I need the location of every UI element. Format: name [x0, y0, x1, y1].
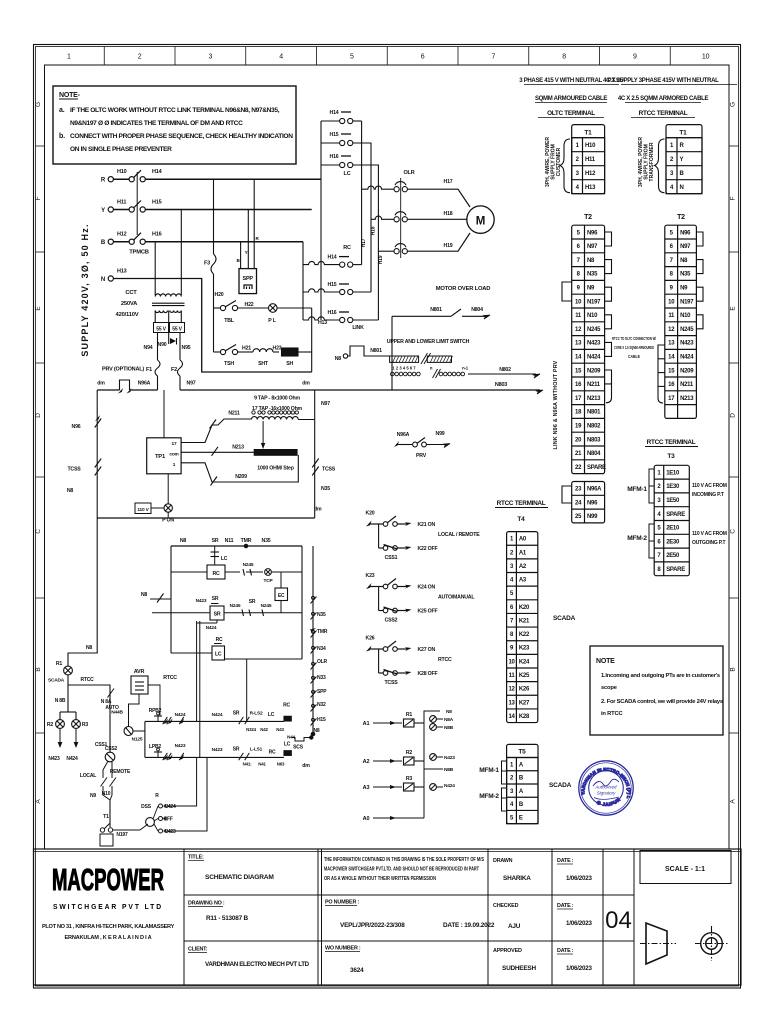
svg-text:2. For SCADA control, we will: 2. For SCADA control, we will provide 24… — [601, 699, 723, 705]
svg-text:N8: N8 — [335, 356, 342, 362]
terminal table T1 OLTC — [572, 125, 605, 194]
row N423 — [145, 756, 284, 758]
svg-text:N423: N423 — [175, 743, 186, 749]
svg-text:SR: SR — [214, 612, 221, 618]
svg-text:RTCC TERMINAL: RTCC TERMINAL — [639, 110, 688, 117]
drawing area frame — [45, 65, 730, 849]
svg-text:N423: N423 — [196, 598, 207, 604]
svg-text:R2: R2 — [406, 750, 413, 756]
svg-text:2: 2 — [138, 54, 142, 61]
svg-text:H19: H19 — [378, 255, 384, 264]
rung 2 SR — [152, 612, 210, 614]
svg-text:SUDHEESH: SUDHEESH — [502, 965, 536, 972]
svg-text:H21: H21 — [242, 346, 251, 352]
svg-text:N8: N8 — [67, 488, 74, 494]
contactor right bus — [361, 121, 363, 265]
svg-text:OUTGOING P.T: OUTGOING P.T — [692, 540, 725, 546]
svg-text:F: F — [730, 196, 737, 200]
svg-text:SHT: SHT — [258, 361, 269, 367]
wires RC out — [353, 264, 362, 266]
svg-text:TMR: TMR — [241, 538, 252, 544]
svg-text:n-1: n-1 — [462, 366, 469, 371]
svg-text:N10: N10 — [680, 313, 691, 319]
svg-text:13: 13 — [668, 341, 675, 347]
svg-text:H13: H13 — [117, 269, 127, 275]
coil SHT — [253, 349, 273, 352]
svg-text:RC: RC — [343, 245, 351, 251]
contactor RC bus2 — [302, 242, 304, 320]
wire neutral — [113, 279, 311, 373]
svg-text:MACPOWER: MACPOWER — [52, 862, 164, 897]
svg-text:N424: N424 — [206, 625, 217, 631]
motor wires — [407, 189, 470, 207]
svg-text:T5: T5 — [518, 749, 526, 756]
selector CSS1 — [108, 689, 115, 698]
svg-text:T1: T1 — [584, 130, 592, 137]
svg-text:1/06/2023: 1/06/2023 — [566, 920, 592, 927]
svg-text:H14: H14 — [328, 255, 337, 261]
svg-text:LOCAL: LOCAL — [80, 773, 96, 779]
svg-text:T4: T4 — [517, 516, 525, 523]
svg-text:12: 12 — [575, 327, 582, 333]
title block — [34, 849, 742, 985]
svg-text:N211: N211 — [587, 382, 601, 388]
svg-text:N423: N423 — [444, 755, 455, 761]
wires to SPP — [240, 242, 242, 269]
svg-text:17: 17 — [668, 396, 675, 402]
limit switch bars — [390, 356, 419, 362]
lamp R1 — [64, 666, 73, 675]
svg-text:a.: a. — [59, 107, 65, 114]
svg-text:in RTCC: in RTCC — [601, 711, 623, 717]
svg-text:TCSS: TCSS — [384, 680, 398, 686]
TPMCB pole Y — [129, 207, 134, 212]
svg-text:CCT: CCT — [125, 290, 137, 296]
svg-text:N197: N197 — [680, 299, 694, 305]
lamp TCP — [265, 569, 272, 576]
note box scada — [590, 646, 723, 735]
PRV link — [120, 380, 130, 390]
svg-text:N197: N197 — [587, 299, 601, 305]
svg-text:PRV: PRV — [416, 453, 427, 459]
drops to rows — [196, 621, 198, 721]
svg-text:250VA: 250VA — [121, 301, 138, 307]
svg-text:55 V: 55 V — [172, 327, 182, 333]
svg-text:N35: N35 — [587, 272, 598, 278]
svg-text:17: 17 — [172, 441, 177, 447]
svg-text:7: 7 — [492, 54, 496, 61]
svg-text:N43: N43 — [276, 727, 284, 732]
svg-text:17: 17 — [575, 396, 582, 402]
svg-text:N97: N97 — [187, 381, 196, 387]
coil RC — [207, 565, 225, 579]
terminal table T3 — [654, 465, 689, 575]
svg-text:3624: 3624 — [350, 967, 364, 974]
svg-text:15: 15 — [668, 368, 675, 374]
svg-text:TITLE:: TITLE: — [188, 855, 204, 861]
svg-text:110 V: 110 V — [137, 507, 149, 513]
terminal table T1 RTCC — [666, 125, 702, 194]
svg-text:K21 ON: K21 ON — [418, 522, 436, 528]
svg-text:N424: N424 — [680, 355, 694, 361]
svg-text:A3: A3 — [519, 578, 527, 584]
resistor block 1000ohm — [254, 450, 297, 456]
svg-text:R2: R2 — [47, 722, 54, 728]
left ruler strip — [36, 145, 45, 147]
svg-text:LC: LC — [344, 171, 351, 177]
svg-text:H12: H12 — [585, 171, 596, 177]
TCSS right contact — [312, 459, 319, 468]
svg-text:SWITCHGEAR PVT LTD: SWITCHGEAR PVT LTD — [53, 904, 163, 911]
tap wiper — [262, 421, 264, 444]
svg-text:TMR: TMR — [317, 629, 328, 635]
svg-text:5: 5 — [350, 54, 354, 61]
fuse F2 — [179, 333, 181, 361]
svg-text:H10: H10 — [117, 169, 127, 175]
svg-text:B: B — [35, 667, 42, 671]
svg-text:55 V: 55 V — [156, 327, 166, 333]
svg-text:SCALE - 1:1: SCALE - 1:1 — [665, 866, 705, 873]
svg-text:N42: N42 — [260, 727, 268, 732]
svg-text:N423: N423 — [48, 756, 60, 762]
svg-text:20: 20 — [575, 437, 582, 443]
svg-text:NOTE-: NOTE- — [59, 92, 81, 99]
svg-text:H16: H16 — [152, 232, 162, 238]
svg-text:DATE :: DATE : — [557, 858, 574, 864]
svg-text:15: 15 — [575, 368, 582, 374]
svg-text:N95: N95 — [182, 345, 191, 351]
svg-text:N8: N8 — [86, 645, 93, 651]
wires TP1 outputs — [181, 419, 251, 443]
svg-text:11: 11 — [668, 313, 675, 319]
svg-text:10: 10 — [575, 299, 582, 305]
left drop to R1 — [68, 518, 97, 666]
svg-text:1: 1 — [67, 54, 71, 61]
svg-text:TCSS: TCSS — [322, 467, 336, 473]
fuse F3 — [213, 179, 215, 254]
svg-text:LINK N96 & N96A WITHOUT PRV: LINK N96 & N96A WITHOUT PRV — [553, 360, 559, 449]
svg-text:TSH: TSH — [224, 361, 234, 367]
svg-text:A3: A3 — [363, 785, 370, 791]
svg-text:SR: SR — [212, 538, 219, 544]
svg-text:OR AS A WHOLE WITHOUT THEIR W: OR AS A WHOLE WITHOUT THEIR WRITTEN PERM… — [324, 876, 436, 882]
svg-text:LOCAL / REMOTE: LOCAL / REMOTE — [438, 532, 480, 538]
svg-text:N8: N8 — [446, 709, 452, 715]
svg-text:DATE : 19.09.2022: DATE : 19.09.2022 — [443, 922, 495, 929]
svg-text:CHECKED: CHECKED — [493, 903, 519, 909]
svg-text:N245: N245 — [587, 327, 601, 333]
svg-text:4C X 2.5 SQMM ARMORED CABLE: 4C X 2.5 SQMM ARMORED CABLE — [618, 96, 709, 102]
svg-text:N424: N424 — [587, 355, 601, 361]
svg-text:P.T.SUPPLY 3PHASE 415V WITH NE: P.T.SUPPLY 3PHASE 415V WITH NEUTRAL — [607, 78, 719, 84]
svg-text:RTCC: RTCC — [80, 677, 94, 683]
svg-text:dm: dm — [302, 763, 310, 769]
svg-text:N99: N99 — [436, 431, 445, 437]
svg-text:D: D — [730, 413, 737, 418]
svg-text:E: E — [519, 815, 523, 821]
wire H22 — [238, 307, 269, 309]
svg-text:RTCC TERMINAL: RTCC TERMINAL — [647, 439, 696, 446]
svg-text:RTCC: RTCC — [163, 675, 177, 681]
svg-text:NOTE: NOTE — [596, 658, 615, 665]
svg-text:13: 13 — [508, 700, 515, 706]
OLR pole H17 — [394, 187, 399, 192]
svg-text:SCADA: SCADA — [553, 615, 576, 622]
svg-text:SPARE: SPARE — [666, 567, 685, 573]
svg-text:110 V AC FROM: 110 V AC FROM — [692, 531, 727, 537]
svg-text:13: 13 — [575, 341, 582, 347]
svg-text:N424: N424 — [66, 756, 78, 762]
svg-text:OLR: OLR — [403, 170, 414, 176]
svg-text:N34: N34 — [317, 646, 326, 652]
svg-text:N97: N97 — [680, 244, 691, 250]
svg-text:N424: N424 — [175, 712, 186, 718]
svg-text:ERNAKULAM , K E R A L A I N: ERNAKULAM , K E R A L A I N D I A — [64, 935, 151, 941]
svg-text:RTCC: RTCC — [438, 657, 452, 663]
projection cone — [646, 923, 667, 964]
svg-text:INCOMING P.T: INCOMING P.T — [692, 492, 724, 498]
svg-text:MFM-2: MFM-2 — [479, 793, 499, 800]
svg-text:R3: R3 — [82, 722, 89, 728]
svg-text:16: 16 — [668, 382, 675, 388]
svg-text:A1: A1 — [363, 721, 370, 727]
svg-text:OFF: OFF — [163, 817, 173, 823]
svg-text:H19: H19 — [444, 243, 453, 249]
svg-text:K23: K23 — [519, 646, 530, 652]
svg-text:K22 OFF: K22 OFF — [418, 546, 438, 552]
svg-text:K25: K25 — [519, 673, 530, 679]
note box — [53, 86, 296, 164]
svg-text:N211: N211 — [228, 411, 240, 417]
svg-text:N99: N99 — [587, 514, 598, 520]
contactor left bus — [320, 121, 322, 320]
svg-text:REMOTE: REMOTE — [110, 769, 131, 775]
svg-text:10: 10 — [508, 659, 515, 665]
svg-text:C: C — [730, 529, 737, 534]
TP1 feed — [163, 390, 165, 438]
svg-text:TRANSFORMER: TRANSFORMER — [649, 142, 655, 181]
svg-text:VEPL/JPR/2022-23/308: VEPL/JPR/2022-23/308 — [340, 922, 405, 929]
svg-text:N423: N423 — [680, 341, 694, 347]
svg-text:N 8B: N 8B — [55, 698, 66, 704]
svg-text:H15: H15 — [152, 200, 162, 206]
svg-text:N33: N33 — [317, 675, 326, 681]
svg-text:8: 8 — [562, 54, 566, 61]
svg-text:N8: N8 — [680, 258, 688, 264]
svg-text:SPARE: SPARE — [587, 465, 606, 471]
svg-text:R1: R1 — [406, 712, 413, 718]
svg-text:T2: T2 — [677, 214, 685, 221]
svg-text:DSS: DSS — [141, 804, 152, 810]
svg-text:R3: R3 — [406, 776, 413, 782]
svg-text:CUSTOMER: CUSTOMER — [556, 147, 562, 176]
svg-text:N41:: N41: — [243, 762, 252, 767]
svg-text:dm: dm — [97, 381, 105, 387]
brace transformer — [655, 139, 665, 193]
svg-text:DATE :: DATE : — [557, 948, 574, 954]
svg-text:1 2 3 4 5 6 7: 1 2 3 4 5 6 7 — [392, 366, 416, 371]
svg-text:SPP: SPP — [242, 276, 253, 282]
svg-text:11: 11 — [575, 313, 582, 319]
wire transformer primary feeds — [154, 242, 156, 295]
svg-text:N: N — [680, 185, 684, 191]
local/remote contacts — [103, 761, 108, 778]
svg-text:N801: N801 — [370, 348, 382, 354]
svg-text:SR: SR — [212, 596, 219, 602]
svg-text:RC: RC — [212, 571, 220, 577]
transformer CCT — [155, 294, 181, 297]
svg-text:N97: N97 — [321, 401, 330, 407]
wire phase R — [145, 178, 321, 180]
svg-text:CORE X 1.5 SQMM ARMOURED: CORE X 1.5 SQMM ARMOURED — [614, 345, 654, 350]
svg-text:APPROVED: APPROVED — [493, 948, 522, 954]
svg-text:K23: K23 — [366, 573, 375, 579]
svg-text:1/06/2023: 1/06/2023 — [566, 965, 592, 972]
svg-text:N209: N209 — [680, 368, 694, 374]
svg-text:H13: H13 — [585, 185, 596, 191]
svg-text:H23: H23 — [273, 346, 282, 352]
terminal table T5 — [507, 744, 538, 823]
svg-text:R1: R1 — [56, 661, 63, 667]
svg-text:SR: SR — [233, 747, 240, 753]
svg-text:N245: N245 — [261, 603, 272, 609]
svg-text:Y: Y — [101, 208, 105, 214]
stamp vardhman — [0, 0, 633, 815]
svg-text:UPPER AND LOWER LIMIT SWITCH: UPPER AND LOWER LIMIT SWITCH — [387, 339, 470, 345]
svg-text:CSS1: CSS1 — [385, 555, 398, 561]
svg-text:F3: F3 — [204, 261, 210, 267]
svg-text:TCSS: TCSS — [67, 467, 81, 473]
svg-text:A1: A1 — [519, 550, 527, 556]
svg-text:04: 04 — [605, 907, 632, 934]
svg-text:DRAWN: DRAWN — [493, 858, 513, 864]
svg-text:R: R — [155, 793, 159, 799]
svg-text:RTCC TERMINAL: RTCC TERMINAL — [497, 500, 546, 507]
svg-text:N125: N125 — [132, 737, 143, 743]
svg-text:N801: N801 — [430, 307, 442, 313]
svg-text:B: B — [730, 667, 737, 671]
tap circles row — [252, 411, 255, 414]
svg-text:23: 23 — [575, 487, 582, 493]
svg-text:N8B: N8B — [444, 725, 454, 731]
svg-text:10: 10 — [702, 54, 710, 61]
svg-text:N8: N8 — [314, 728, 320, 734]
svg-text:H14: H14 — [152, 169, 163, 175]
svg-text:N803: N803 — [495, 382, 507, 388]
svg-text:N804: N804 — [587, 451, 601, 457]
svg-text:19: 19 — [575, 424, 582, 430]
svg-text:1/06/2023: 1/06/2023 — [566, 875, 592, 882]
svg-text:N424: N424 — [212, 712, 223, 718]
left chain — [96, 390, 98, 518]
wires DSS to rows — [167, 757, 197, 806]
svg-text:CSS1: CSS1 — [95, 742, 108, 748]
svg-text:P L: P L — [268, 318, 276, 324]
svg-text:IF THE OLTC WORK WITHOUT RTCC: IF THE OLTC WORK WITHOUT RTCC LINK TERMI… — [70, 107, 280, 114]
svg-text:N10: N10 — [102, 791, 111, 797]
svg-text:L-LS1: L-LS1 — [250, 747, 263, 753]
svg-text:H10: H10 — [585, 143, 596, 149]
row N424 — [145, 720, 284, 722]
svg-text:MACPOWER SWITCHGEAR PVT.LTD. A: MACPOWER SWITCHGEAR PVT.LTD. AND SHOULD … — [324, 867, 479, 873]
centre tap N90 — [168, 333, 170, 345]
wire N96A segment — [130, 389, 158, 391]
svg-text:9 TAP - 8x1000 Ohm: 9 TAP - 8x1000 Ohm — [254, 396, 300, 402]
svg-text:N213: N213 — [587, 396, 601, 402]
svg-text:N209: N209 — [587, 368, 601, 374]
svg-text:MFM-1: MFM-1 — [479, 767, 499, 774]
terminal table T4 — [507, 532, 538, 723]
svg-text:R-LS2: R-LS2 — [250, 711, 263, 717]
svg-text:H17: H17 — [361, 238, 367, 247]
wire phase Y — [145, 209, 311, 211]
svg-text:K25 OFF: K25 OFF — [418, 609, 438, 615]
svg-text:SR: SR — [249, 599, 256, 605]
svg-text:1E10: 1E10 — [666, 470, 680, 476]
svg-text:VARDHMAN ELECTRO MECH PVT LTD: VARDHMAN ELECTRO MECH PVT LTD — [205, 961, 310, 968]
svg-text:RC: RC — [283, 703, 290, 709]
svg-text:16: 16 — [575, 382, 582, 388]
svg-text:N41: N41 — [258, 762, 266, 767]
svg-text:N9: N9 — [680, 286, 688, 292]
svg-text:N803: N803 — [587, 437, 601, 443]
svg-text:OLTC TERMINAL: OLTC TERMINAL — [547, 110, 595, 117]
TBL contact — [214, 307, 221, 309]
svg-text:AUTO/MANUAL: AUTO/MANUAL — [438, 595, 475, 601]
svg-text:12: 12 — [508, 687, 515, 693]
svg-text:K24 ON: K24 ON — [418, 585, 436, 591]
svg-text:K21: K21 — [519, 618, 530, 624]
TPMCB link bar — [136, 172, 138, 235]
svg-text:N245: N245 — [680, 327, 694, 333]
svg-text:K20: K20 — [366, 511, 375, 517]
wire N801-N804 — [392, 315, 451, 317]
tap circles — [391, 372, 395, 376]
svg-text:N63: N63 — [277, 762, 285, 767]
svg-text:RC: RC — [216, 637, 223, 643]
svg-text:DRAWING NO :: DRAWING NO : — [188, 901, 225, 907]
svg-text:T1: T1 — [679, 130, 687, 137]
lamps R2 R3 — [60, 711, 76, 713]
svg-text:2E30: 2E30 — [666, 539, 680, 545]
tap coil — [251, 417, 298, 420]
svg-text:14: 14 — [575, 355, 582, 361]
svg-text:K20: K20 — [519, 605, 530, 611]
svg-text:TPMCB: TPMCB — [129, 250, 149, 256]
svg-text:Y: Y — [245, 250, 248, 255]
contact LC — [214, 546, 216, 565]
svg-text:3: 3 — [209, 54, 213, 61]
svg-text:H18: H18 — [444, 211, 453, 217]
svg-text:N96A: N96A — [138, 381, 151, 387]
svg-text:9: 9 — [633, 54, 637, 61]
svg-text:AJU: AJU — [508, 923, 521, 930]
svg-text:LC: LC — [284, 742, 291, 748]
svg-text:H17: H17 — [444, 179, 453, 185]
svg-text:SCADA: SCADA — [549, 782, 572, 789]
svg-text:N211: N211 — [680, 382, 694, 388]
wire dm bus — [97, 389, 119, 391]
svg-text:14: 14 — [508, 714, 515, 720]
DSS outputs — [159, 804, 163, 808]
wire N803 vertical — [391, 316, 393, 390]
svg-text:THE INFORMATION CONTAINED IN T: THE INFORMATION CONTAINED IN THIS DRAWIN… — [324, 857, 485, 863]
lamp P ON — [164, 504, 172, 512]
svg-text:N801: N801 — [587, 410, 601, 416]
svg-text:PO NUMBER :: PO NUMBER : — [325, 900, 359, 906]
OLR pole H19 — [394, 249, 399, 254]
svg-text:24: 24 — [575, 500, 582, 506]
